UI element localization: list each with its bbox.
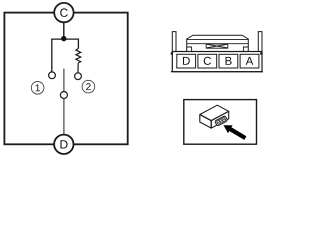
wire [52, 39, 79, 72]
relay location box [184, 100, 257, 145]
connector latch [206, 44, 228, 48]
connector pin B [219, 54, 238, 68]
contact 2 [75, 73, 82, 80]
pointer arrow [224, 125, 247, 140]
label 1 [31, 82, 44, 95]
resistor [76, 48, 81, 63]
terminal C [54, 3, 73, 22]
switch pole contact [60, 92, 67, 99]
connector pin C [198, 54, 217, 68]
connector cap fold line 2 [187, 43, 249, 45]
junction [61, 36, 66, 41]
component case outline [4, 13, 127, 145]
connector left ear [172, 32, 176, 52]
connector body bottom flange [171, 71, 263, 73]
label 2 [82, 80, 95, 93]
connector cap left step [187, 47, 192, 52]
connector pin D [177, 54, 196, 68]
contact 1 [49, 72, 56, 79]
connector left corner tab [171, 52, 173, 54]
wire [63, 99, 65, 135]
connector right corner tab [260, 52, 262, 54]
switch pole wire [63, 69, 65, 92]
relay icon connector grille [215, 116, 228, 126]
terminal D [54, 135, 73, 154]
wire [77, 63, 79, 73]
relay icon body [200, 105, 229, 128]
connector cap fold line [187, 38, 249, 40]
wire [63, 22, 65, 39]
connector right ear [258, 32, 262, 52]
connector cap [187, 35, 249, 51]
connector body [172, 52, 262, 72]
connector pin A [240, 54, 259, 68]
connector cap right step [243, 47, 248, 52]
